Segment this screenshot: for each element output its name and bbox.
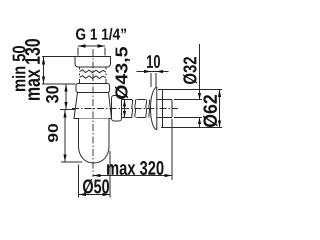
extension line pipe end down [171,119,173,180]
label 90 [48,124,58,142]
extension line flange top [158,89,222,91]
break line upper [80,70,107,73]
dimension D62 line [219,90,221,128]
dimension min50 max130 line [43,57,45,84]
cup [79,119,110,164]
extension line dome face [155,73,157,88]
extension line locknut top left [42,83,76,85]
wire tube wall right [105,67,107,84]
extension line cup right down [109,151,111,198]
extension line G left [77,48,79,56]
extension line cap top left [42,56,75,58]
label max 130 [25,39,40,100]
escutcheon dome [151,88,157,130]
dimension D50 line [79,194,111,196]
wire centerline vertical axis [92,49,94,177]
extension line flange bottom [161,127,222,129]
label 10 [147,55,160,68]
label D43,5 [115,47,130,99]
extension line outlet axis left [60,109,75,111]
locknut [76,84,110,93]
extension line dome apex [150,73,152,87]
wire centerline horizontal outlet axis [72,108,178,110]
break line pipe 1 [132,100,136,118]
dimension D32 line lower [199,118,201,128]
wall line [162,90,164,128]
extension line pipe top right [174,99,202,101]
extension line G right [104,48,106,56]
cap nut G1 1/4 [75,57,111,68]
extension line pipe bottom right [174,117,202,119]
dimension D43.5 line [124,100,126,118]
label min 50 [12,46,26,91]
outlet nut [112,96,122,122]
dimension 10 line [137,71,169,73]
dimension D32 line upper [199,44,201,100]
label G 1 1/4" [76,28,126,40]
break line lower [80,76,107,79]
pipe segment 1 [122,100,133,118]
dimension 30 line [65,84,67,109]
pipe segment through wall [157,100,173,118]
trap body cone [74,93,112,119]
dimension G 1 1/4 line [78,45,105,47]
wire tube wall left [79,67,81,84]
label 30 [46,86,59,103]
break line pipe 2 [146,100,150,118]
dimension 90 line [64,110,66,162]
label D62 [203,95,218,127]
label max 320 [107,161,164,175]
extension line cup left down [78,165,80,198]
label D32 [183,57,197,84]
label D50 [83,179,109,194]
extension line cup bottom [61,161,82,163]
pipe end cap [171,100,173,118]
dimension max320 line [93,175,172,177]
pipe segment 2 [137,100,146,118]
